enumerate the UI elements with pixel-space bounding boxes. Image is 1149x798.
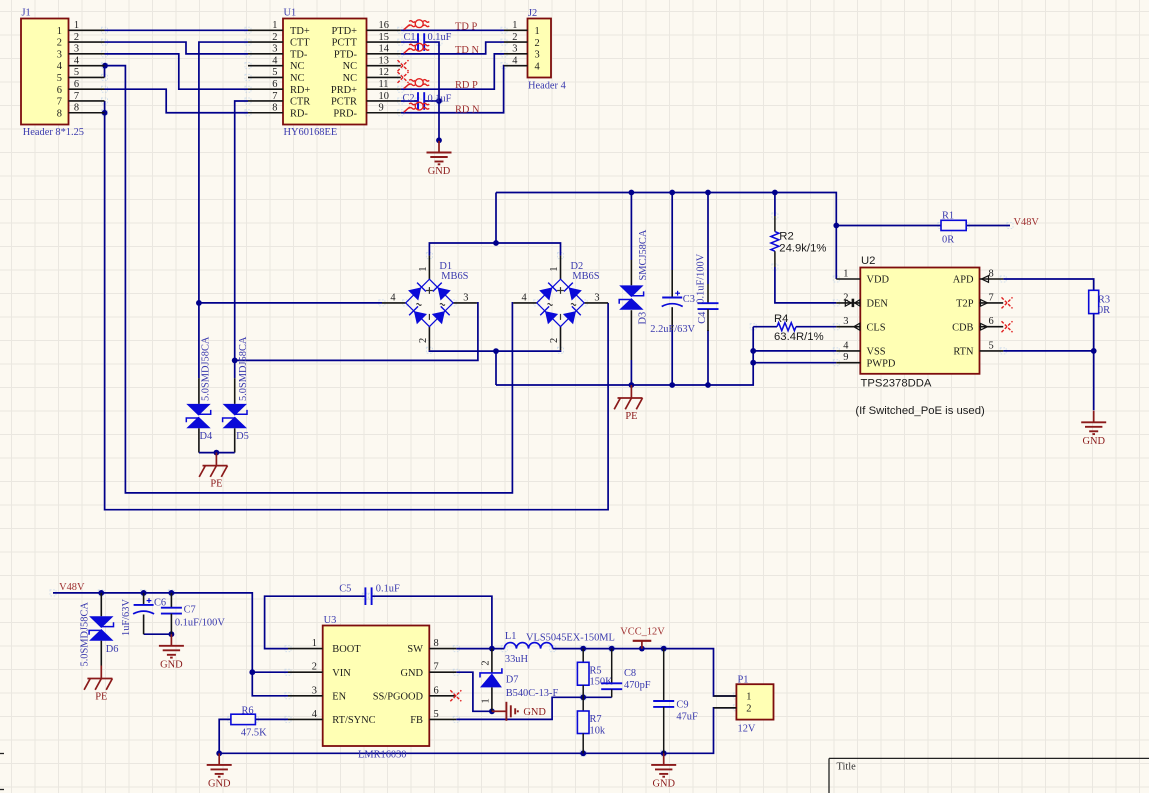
- svg-text:1: 1: [512, 20, 517, 31]
- svg-text:PWPD: PWPD: [867, 358, 896, 369]
- wire GND bottom rail: [219, 708, 736, 754]
- wire J1.6 to U1.8: [105, 89, 249, 113]
- svg-text:4: 4: [521, 293, 527, 304]
- wire U1.10 to C2: [401, 100, 418, 102]
- svg-text:2: 2: [57, 38, 62, 49]
- svg-text:GND: GND: [523, 707, 546, 718]
- wire D1 D2 tops: [429, 243, 560, 256]
- svg-text:2: 2: [746, 703, 751, 714]
- svg-text:3: 3: [74, 44, 79, 55]
- svg-text:GND: GND: [208, 779, 231, 790]
- svg-text:15: 15: [379, 32, 389, 43]
- svg-text:VDD: VDD: [867, 275, 890, 286]
- svg-text:SMCJ58CA: SMCJ58CA: [638, 229, 649, 280]
- svg-text:5: 5: [272, 67, 277, 78]
- svg-text:2: 2: [549, 338, 560, 343]
- wire C1 to GND column: [424, 42, 439, 140]
- wire L1 to VCC rail: [553, 649, 737, 696]
- svg-text:6: 6: [272, 79, 277, 90]
- wire RTN node to GND: [1093, 351, 1095, 410]
- wire C4 column top: [707, 193, 709, 285]
- svg-text:C4: C4: [697, 311, 708, 324]
- svg-text:2: 2: [512, 32, 517, 43]
- svg-text:TD N: TD N: [455, 45, 479, 56]
- power port VCC_12V: [620, 626, 665, 648]
- svg-text:24.9k/1%: 24.9k/1%: [779, 242, 826, 254]
- svg-text:3: 3: [312, 685, 317, 696]
- svg-text:MB6S: MB6S: [572, 271, 599, 282]
- svg-text:6: 6: [989, 316, 994, 327]
- wire C5 to SW node: [371, 596, 492, 648]
- svg-text:HY60168EE: HY60168EE: [284, 127, 338, 138]
- inductor L1 33uH VLS5045EX-150ML: [504, 631, 615, 665]
- svg-text:0R: 0R: [1098, 305, 1110, 316]
- svg-text:PE: PE: [625, 411, 637, 422]
- svg-text:BOOT: BOOT: [332, 644, 361, 655]
- svg-text:0.1uF: 0.1uF: [428, 32, 452, 43]
- wire D3 column top: [630, 193, 632, 261]
- resistor R4 63.4R/1%: [774, 313, 824, 343]
- svg-text:TPS2378DDA: TPS2378DDA: [861, 378, 932, 390]
- wire bridge top to rail: [495, 193, 497, 244]
- resistor R5 150K: [577, 649, 613, 698]
- svg-text:Header 8*1.25: Header 8*1.25: [23, 127, 84, 138]
- svg-text:3: 3: [463, 293, 468, 304]
- capacitor C1 0.1uF: [404, 32, 452, 51]
- wire bridge bottom to PE rail: [495, 351, 497, 385]
- capacitor C6 1uF/63V: [121, 593, 166, 636]
- wire J1.2 to U1.3: [105, 42, 249, 54]
- svg-text:4: 4: [535, 61, 541, 72]
- wire R6 to RT pin: [255, 718, 288, 720]
- wire rail to R2: [774, 193, 776, 217]
- svg-text:2: 2: [272, 32, 277, 43]
- svg-text:5: 5: [434, 709, 439, 720]
- TVS diode D3 SMCJ58CA: [619, 229, 649, 360]
- ground GND at D7 anode: [492, 702, 547, 721]
- capacitor C5 0.1uF: [339, 584, 400, 605]
- resistor R6 47.5K: [231, 705, 267, 738]
- svg-text:C3: C3: [683, 294, 695, 305]
- ground PE under D3: [614, 385, 642, 422]
- svg-text:NC: NC: [290, 61, 305, 72]
- svg-text:CLS: CLS: [867, 322, 886, 333]
- svg-text:APD: APD: [953, 275, 974, 286]
- no-ERC marker U2 pin7: [1002, 297, 1013, 308]
- svg-text:C2: C2: [403, 93, 415, 104]
- ground PE under D6: [84, 666, 112, 703]
- svg-text:6: 6: [434, 685, 439, 696]
- wire U3 GND to D7 anode: [456, 672, 492, 711]
- svg-text:1: 1: [74, 20, 79, 31]
- svg-text:8: 8: [989, 269, 994, 280]
- svg-text:47uF: 47uF: [676, 712, 698, 723]
- differential pair directive pin9: [404, 102, 429, 112]
- wire R1 to V48V label: [966, 225, 1010, 227]
- wire R4 to U2 CLS: [796, 326, 836, 328]
- svg-text:2: 2: [74, 32, 79, 43]
- svg-text:10k: 10k: [590, 725, 606, 736]
- svg-text:RD+: RD+: [290, 85, 310, 96]
- svg-text:14: 14: [379, 44, 390, 55]
- svg-text:V48V: V48V: [1014, 217, 1040, 228]
- svg-text:P1: P1: [738, 674, 749, 685]
- svg-text:3: 3: [594, 293, 599, 304]
- ground PE under D4 D5: [199, 453, 227, 490]
- svg-text:U2: U2: [861, 255, 875, 267]
- svg-text:1: 1: [843, 269, 848, 280]
- svg-text:2: 2: [312, 662, 317, 673]
- svg-text:RD P: RD P: [455, 80, 478, 91]
- wire VIN branch: [252, 671, 288, 673]
- resistor R7 10k: [577, 697, 605, 753]
- svg-text:1: 1: [535, 26, 540, 37]
- wire FB to divider: [456, 697, 583, 719]
- resistor R2 24.9k/1%: [771, 216, 827, 267]
- wire U2 APD to R3: [1003, 279, 1093, 290]
- net label V48V top: [1014, 217, 1040, 228]
- svg-text:PCTR: PCTR: [331, 97, 357, 108]
- svg-text:D4: D4: [200, 431, 214, 442]
- wire V48 top rail: [496, 193, 836, 280]
- svg-text:TD+: TD+: [290, 26, 310, 37]
- svg-text:5: 5: [57, 73, 62, 84]
- svg-text:1: 1: [549, 266, 560, 271]
- wire J1.4 J1.5 tie to D2 pin4: [105, 66, 514, 493]
- svg-text:DEN: DEN: [867, 299, 889, 310]
- svg-text:7: 7: [272, 91, 277, 102]
- svg-text:VLS5045EX-150ML: VLS5045EX-150ML: [526, 632, 615, 643]
- wire U1.2 CTT down to D4 and D1.4: [199, 42, 248, 378]
- net label V48V bottom: [59, 582, 85, 593]
- svg-text:5: 5: [989, 340, 994, 351]
- wire RD_P net: [401, 54, 504, 89]
- svg-text:5.0SMDJ58CA: 5.0SMDJ58CA: [201, 336, 212, 401]
- diode D7 B540C-13-F: [480, 649, 558, 712]
- svg-text:PRD-: PRD-: [333, 108, 357, 119]
- svg-text:B540C-13-F: B540C-13-F: [506, 688, 559, 699]
- wire R2 to U2 DEN: [775, 267, 836, 303]
- no-ERC marker U2 pin6: [1002, 321, 1013, 332]
- svg-text:3: 3: [535, 50, 540, 61]
- svg-text:3: 3: [512, 44, 517, 55]
- svg-text:U1: U1: [284, 8, 297, 19]
- svg-text:NC: NC: [290, 73, 305, 84]
- connector P1 12V: [714, 674, 774, 734]
- connector J2 Header 4: [504, 8, 567, 92]
- wire C6 C7 bottoms: [144, 633, 172, 635]
- svg-text:0R: 0R: [942, 234, 954, 245]
- svg-text:C5: C5: [339, 584, 351, 595]
- bridge rectifier D2 MB6S: [513, 256, 608, 351]
- svg-text:0.1uF/100V: 0.1uF/100V: [696, 253, 707, 303]
- svg-text:GND: GND: [1082, 436, 1105, 447]
- svg-text:D6: D6: [106, 644, 119, 655]
- capacitor C2 0.1uF: [403, 92, 452, 110]
- svg-text:6: 6: [57, 85, 62, 96]
- transformer U1 HY60168EE: [248, 8, 401, 139]
- svg-text:3: 3: [843, 316, 848, 327]
- svg-text:8: 8: [272, 103, 277, 114]
- no-ERC marker U1 pin12: [398, 72, 409, 83]
- wire RD_N net: [401, 66, 504, 113]
- svg-text:(If Switched_PoE is used): (If Switched_PoE is used): [855, 405, 985, 417]
- svg-text:5: 5: [74, 67, 79, 78]
- differential pair directive pin16: [404, 20, 429, 30]
- svg-text:63.4R/1%: 63.4R/1%: [774, 331, 824, 343]
- svg-text:470pF: 470pF: [624, 680, 651, 691]
- net label RD_N: [455, 105, 480, 116]
- wire U2 RTN to node: [1003, 350, 1093, 352]
- wire D3 column bottom: [630, 360, 632, 385]
- connection grid marks: [50, 27, 1013, 756]
- svg-text:1: 1: [312, 638, 317, 649]
- svg-text:C1: C1: [404, 32, 416, 43]
- svg-text:Header 4: Header 4: [528, 81, 567, 92]
- svg-text:3: 3: [272, 44, 277, 55]
- no-ERC marker U3 pin6: [450, 690, 461, 701]
- wire SW row: [456, 648, 504, 650]
- svg-text:7: 7: [74, 91, 79, 102]
- svg-text:NC: NC: [343, 73, 358, 84]
- TVS diode D4 5.0SMDJ58CA: [186, 336, 213, 452]
- svg-text:MB6S: MB6S: [441, 271, 468, 282]
- svg-text:PCTT: PCTT: [332, 38, 358, 49]
- svg-text:FB: FB: [410, 715, 423, 726]
- svg-text:J1: J1: [22, 8, 31, 19]
- wire TD_P net: [401, 29, 504, 31]
- svg-text:2: 2: [418, 338, 429, 343]
- svg-text:0.1uF: 0.1uF: [428, 94, 452, 105]
- resistor R1 0R: [941, 210, 966, 245]
- svg-text:TD-: TD-: [290, 49, 308, 60]
- ground GND under C1 C2: [427, 141, 452, 177]
- wire R4 left stub: [753, 326, 777, 328]
- svg-text:12: 12: [379, 67, 389, 78]
- svg-text:2: 2: [480, 660, 491, 665]
- op-amp U2 TPS2378DDA PoE controller: [836, 255, 1003, 390]
- ground GND under R3: [1081, 411, 1106, 447]
- wire D1 D2 bottoms: [429, 349, 560, 352]
- svg-text:1: 1: [418, 266, 429, 271]
- wire C3 column bottom: [671, 330, 673, 385]
- svg-text:12V: 12V: [738, 723, 756, 734]
- no-ERC marker U1 pin13: [398, 60, 409, 71]
- svg-text:7: 7: [989, 292, 994, 303]
- wire J1.3 to U1.6: [105, 54, 249, 89]
- svg-text:RD-: RD-: [290, 108, 308, 119]
- wire R3 to RTN node: [1093, 314, 1095, 351]
- svg-text:EN: EN: [332, 691, 346, 702]
- svg-text:9: 9: [843, 352, 848, 363]
- svg-text:5.0SMDJ58CA: 5.0SMDJ58CA: [238, 336, 249, 401]
- svg-text:Title: Title: [837, 762, 857, 773]
- svg-text:RTN: RTN: [953, 347, 974, 358]
- svg-text:LMR16030: LMR16030: [358, 750, 407, 761]
- svg-text:2: 2: [535, 38, 540, 49]
- svg-text:PTD+: PTD+: [332, 26, 358, 37]
- wire rail to R1: [836, 225, 941, 227]
- wire R6 to GND rail: [219, 719, 231, 753]
- svg-text:VCC_12V: VCC_12V: [620, 626, 665, 637]
- title block: [829, 758, 1149, 793]
- svg-text:1uF/63V: 1uF/63V: [121, 599, 132, 636]
- svg-text:4: 4: [74, 55, 80, 66]
- svg-text:GND: GND: [652, 779, 675, 790]
- svg-text:2.2uF/63V: 2.2uF/63V: [650, 324, 695, 335]
- svg-text:4: 4: [272, 55, 278, 66]
- svg-text:4: 4: [390, 293, 396, 304]
- svg-text:TD P: TD P: [455, 22, 477, 33]
- svg-text:47.5K: 47.5K: [241, 728, 267, 739]
- comment text: [855, 405, 985, 417]
- svg-text:5.0SMDJ58CA: 5.0SMDJ58CA: [79, 602, 90, 667]
- svg-text:7: 7: [57, 97, 62, 108]
- svg-text:7: 7: [434, 662, 439, 673]
- svg-text:D3: D3: [638, 312, 649, 325]
- svg-text:11: 11: [379, 79, 389, 90]
- wire C3 column top: [671, 193, 673, 271]
- svg-text:0.1uF/100V: 0.1uF/100V: [175, 618, 225, 629]
- svg-text:PE: PE: [210, 478, 222, 489]
- svg-text:R6: R6: [242, 705, 254, 716]
- wire PE rail: [496, 327, 753, 385]
- svg-text:D7: D7: [506, 674, 519, 685]
- svg-text:6: 6: [74, 79, 79, 90]
- wire BOOT to C5: [265, 596, 366, 648]
- net label TD_N: [455, 45, 479, 56]
- ground GND under R6: [207, 753, 232, 789]
- bridge rectifier D1 MB6S: [382, 256, 477, 351]
- wire divider to C8: [583, 696, 612, 698]
- svg-text:RD N: RD N: [455, 105, 480, 116]
- svg-text:8: 8: [74, 103, 79, 114]
- svg-text:1: 1: [480, 698, 491, 703]
- svg-text:9: 9: [379, 103, 384, 114]
- svg-text:1: 1: [746, 692, 751, 703]
- svg-text:D5: D5: [236, 431, 249, 442]
- capacitor C4 0.1uF/100V: [696, 253, 719, 331]
- svg-text:VIN: VIN: [332, 668, 351, 679]
- capacitor C3 2.2uF/63V: [650, 270, 695, 335]
- svg-text:4: 4: [312, 709, 318, 720]
- differential pair directive pin14: [404, 43, 429, 53]
- svg-text:4: 4: [512, 55, 518, 66]
- ground GND under C7: [159, 634, 184, 670]
- svg-text:U3: U3: [324, 615, 337, 626]
- wire CTT branch to D1 pin4: [199, 302, 382, 304]
- svg-text:GND: GND: [160, 660, 183, 671]
- svg-text:V48V: V48V: [59, 582, 85, 593]
- wire J1.1 to U1.1: [105, 29, 249, 31]
- svg-text:VSS: VSS: [867, 347, 886, 358]
- ground GND under C9: [651, 753, 676, 789]
- svg-text:NC: NC: [343, 61, 358, 72]
- svg-text:3: 3: [57, 49, 62, 60]
- wire VSS row: [753, 350, 836, 352]
- regulator U3 LMR16030: [288, 615, 456, 761]
- TVS diode D6 5.0SMDJ58CA: [79, 593, 118, 667]
- connector J1 Header 8*1.25: [21, 8, 105, 139]
- svg-text:SW: SW: [407, 644, 423, 655]
- svg-text:8: 8: [57, 108, 62, 119]
- svg-text:1: 1: [272, 20, 277, 31]
- svg-text:C8: C8: [624, 668, 636, 679]
- svg-text:GND: GND: [428, 166, 451, 177]
- svg-text:CDB: CDB: [952, 322, 973, 333]
- svg-text:PRD+: PRD+: [331, 85, 357, 96]
- wire U1.15 to C1: [401, 41, 418, 43]
- wire C2 to GND column: [424, 100, 439, 102]
- capacitor C8 470pF: [601, 649, 651, 698]
- svg-text:RT/SYNC: RT/SYNC: [332, 715, 375, 726]
- resistor R3 0R: [1089, 290, 1110, 316]
- svg-text:0.1uF: 0.1uF: [376, 584, 400, 595]
- capacitor C9 47uF: [653, 649, 698, 754]
- svg-text:10: 10: [379, 91, 389, 102]
- svg-text:R2: R2: [779, 230, 793, 242]
- svg-text:R5: R5: [590, 666, 602, 677]
- svg-text:150K: 150K: [590, 677, 614, 688]
- wire D1 pin3 to CTR column: [235, 303, 478, 361]
- TVS diode D5 5.0SMDJ58CA: [199, 336, 249, 452]
- svg-text:SS/PGOOD: SS/PGOOD: [373, 691, 424, 702]
- svg-text:33uH: 33uH: [505, 654, 529, 665]
- svg-text:R1: R1: [942, 210, 954, 221]
- svg-text:C7: C7: [184, 605, 196, 616]
- svg-text:PTD-: PTD-: [334, 49, 358, 60]
- svg-text:13: 13: [379, 55, 389, 66]
- wire TD_N net: [401, 42, 504, 54]
- wire J1.7 J1.8 tie to D2 pin3: [105, 101, 608, 510]
- svg-text:GND: GND: [400, 668, 423, 679]
- svg-text:8: 8: [434, 638, 439, 649]
- differential pair directive pin11: [404, 79, 429, 89]
- svg-text:CTT: CTT: [290, 38, 310, 49]
- wire C4 column bottom: [707, 330, 709, 385]
- svg-text:T2P: T2P: [956, 299, 974, 310]
- svg-text:PE: PE: [95, 691, 107, 702]
- svg-text:4: 4: [843, 340, 849, 351]
- svg-text:C9: C9: [676, 700, 688, 711]
- net label TD_P: [455, 22, 477, 33]
- svg-text:R7: R7: [590, 714, 602, 725]
- svg-text:R4: R4: [774, 313, 788, 325]
- net label RD_P: [455, 80, 478, 91]
- wire V48V to U3 VIN EN: [53, 593, 288, 696]
- capacitor C7 0.1uF/100V: [161, 593, 225, 634]
- svg-text:L1: L1: [505, 631, 517, 642]
- svg-text:CTR: CTR: [290, 97, 310, 108]
- svg-text:4: 4: [57, 61, 63, 72]
- svg-text:16: 16: [379, 20, 389, 31]
- svg-text:1: 1: [57, 26, 62, 37]
- wire PWPD row: [753, 362, 836, 364]
- sheet edge ticks: [0, 754, 4, 790]
- svg-text:J2: J2: [528, 8, 537, 19]
- wire U1.7 CTR down to D5: [235, 101, 248, 378]
